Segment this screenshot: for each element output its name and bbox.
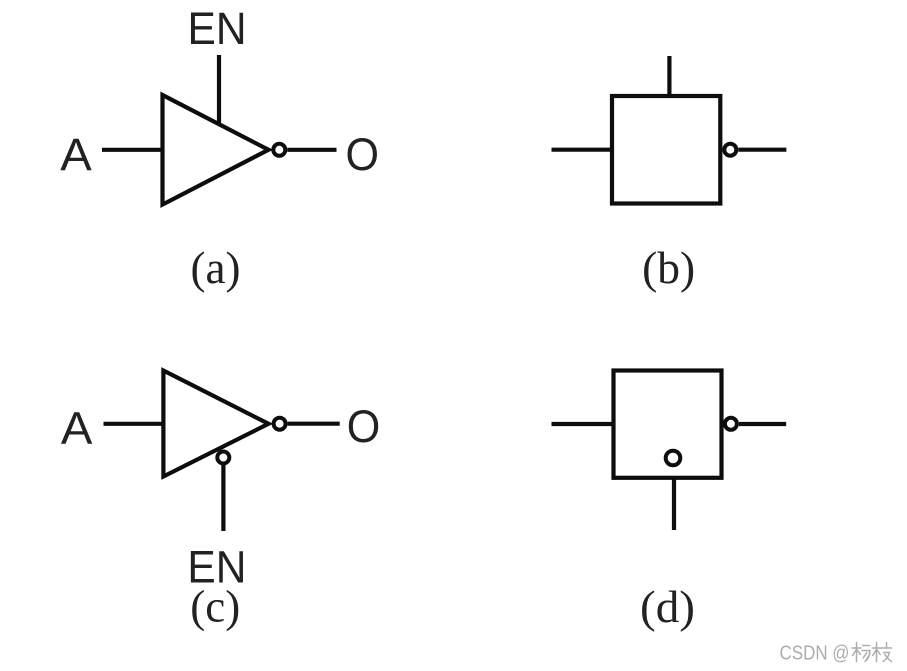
bubble output (b) (724, 144, 736, 156)
svg-text:O: O (347, 401, 381, 452)
watermark glyph zhi (873, 643, 892, 662)
wire input A (c) (104, 422, 164, 426)
bubble output (c) (274, 418, 286, 430)
wire output (b) (738, 148, 786, 152)
svg-text:(d): (d) (640, 581, 695, 632)
svg-text:(b): (b) (642, 242, 695, 293)
wire bottom pin (d) (672, 478, 676, 530)
bubble enable inner (d) (666, 451, 681, 466)
wire EN vertical (c) (221, 465, 225, 531)
buffer triangle (a) (163, 95, 269, 205)
box (d) (614, 371, 722, 478)
watermark glyph yang (852, 643, 870, 662)
svg-text:A: A (60, 129, 92, 180)
wire input (b) (552, 148, 613, 152)
wire input (d) (552, 422, 614, 426)
wire output (c) (288, 422, 340, 426)
bubble enable (c) (217, 452, 229, 464)
wire EN vertical (a) (217, 55, 221, 125)
svg-text:(a): (a) (191, 242, 241, 293)
svg-text:CSDN @: CSDN @ (780, 643, 850, 665)
svg-text:A: A (61, 402, 93, 453)
wire output (d) (739, 422, 786, 426)
wire top pin (b) (667, 56, 671, 96)
svg-text:EN: EN (188, 3, 247, 54)
bubble output (a) (273, 144, 285, 156)
box (b) (612, 96, 720, 204)
buffer triangle (c) (163, 371, 268, 477)
svg-text:(c): (c) (190, 581, 240, 632)
svg-text:O: O (346, 129, 380, 180)
wire output (a) (287, 148, 336, 152)
wire input A (a) (102, 148, 163, 152)
bubble output (d) (725, 418, 737, 430)
